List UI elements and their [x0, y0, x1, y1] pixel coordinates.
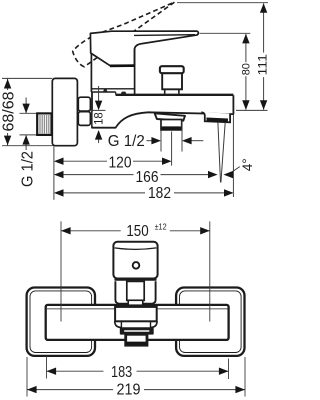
svg-text:166: 166	[136, 169, 159, 186]
svg-text:120: 120	[109, 154, 132, 171]
svg-text:111: 111	[258, 54, 270, 76]
svg-text:219: 219	[117, 381, 141, 398]
svg-text:183: 183	[111, 364, 132, 381]
svg-text:4°: 4°	[240, 158, 255, 171]
svg-text:G 1/2: G 1/2	[19, 151, 36, 187]
svg-text:182: 182	[148, 185, 171, 202]
svg-text:G 1/2: G 1/2	[108, 133, 145, 150]
svg-text:68/68: 68/68	[0, 92, 17, 132]
svg-text:80: 80	[240, 63, 252, 75]
svg-text:150: 150	[126, 223, 148, 240]
svg-text:18: 18	[92, 112, 106, 125]
svg-text:±12: ±12	[155, 221, 167, 231]
